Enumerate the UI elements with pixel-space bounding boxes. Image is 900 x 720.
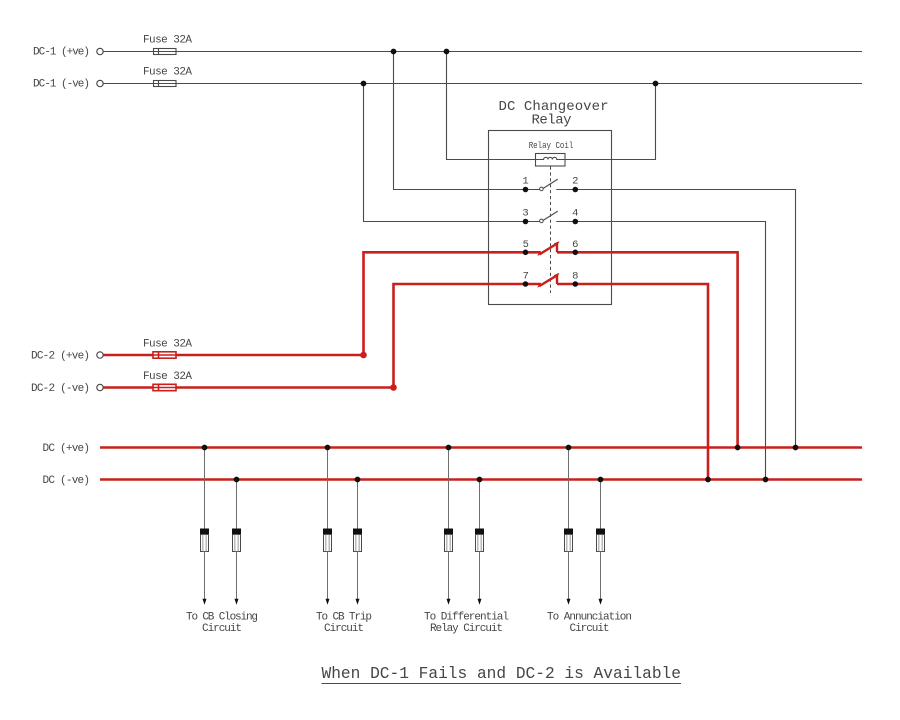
svg-text:Fuse 32A: Fuse 32A	[143, 67, 192, 79]
svg-text:DC (+ve): DC (+ve)	[43, 443, 91, 455]
svg-text:Fuse 32A: Fuse 32A	[143, 339, 192, 351]
svg-text:2: 2	[572, 176, 578, 188]
svg-text:Relay: Relay	[532, 113, 572, 129]
svg-text:7: 7	[523, 271, 529, 283]
svg-text:To CB Trip: To CB Trip	[316, 611, 372, 623]
svg-text:Circuit: Circuit	[202, 623, 242, 635]
svg-text:To Annunciation: To Annunciation	[547, 611, 632, 623]
svg-text:To CB Closing: To CB Closing	[186, 611, 258, 623]
svg-text:Fuse 32A: Fuse 32A	[143, 371, 192, 383]
svg-text:4: 4	[572, 208, 578, 220]
svg-text:8: 8	[572, 271, 578, 283]
svg-text:DC-1 (+ve): DC-1 (+ve)	[33, 47, 90, 59]
svg-text:Circuit: Circuit	[570, 623, 610, 635]
svg-text:DC-1 (-ve): DC-1 (-ve)	[33, 79, 90, 91]
svg-text:DC-2 (+ve): DC-2 (+ve)	[31, 351, 90, 363]
svg-text:To Differential: To Differential	[424, 611, 509, 623]
svg-text:3: 3	[522, 208, 528, 220]
svg-text:5: 5	[523, 239, 529, 251]
svg-text:When DC-1 Fails and DC-2 is Av: When DC-1 Fails and DC-2 is Available	[322, 665, 682, 684]
svg-text:Relay Circuit: Relay Circuit	[430, 623, 503, 635]
svg-text:1: 1	[522, 176, 528, 188]
svg-text:Relay Coil: Relay Coil	[529, 140, 574, 151]
svg-text:DC-2 (-ve): DC-2 (-ve)	[31, 383, 90, 395]
svg-text:6: 6	[572, 239, 578, 251]
svg-text:Fuse 32A: Fuse 32A	[143, 35, 192, 47]
svg-text:DC (-ve): DC (-ve)	[43, 475, 91, 487]
svg-text:Circuit: Circuit	[324, 623, 364, 635]
